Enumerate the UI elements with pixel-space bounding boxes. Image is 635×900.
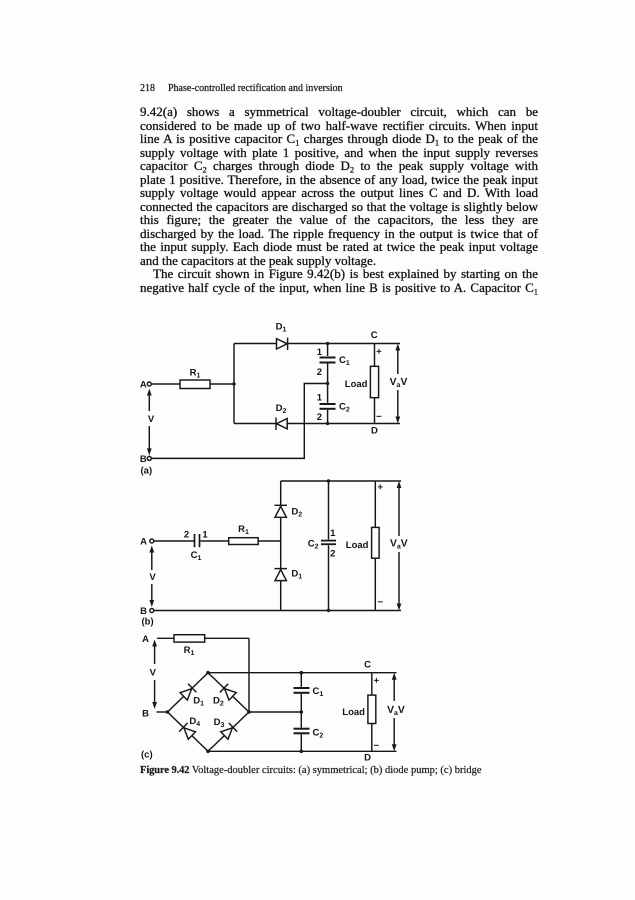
- svg-text:B: B: [140, 606, 147, 617]
- svg-text:C1: C1: [313, 686, 324, 698]
- svg-text:−: −: [378, 597, 384, 608]
- svg-text:2: 2: [184, 530, 189, 541]
- svg-text:(a): (a): [141, 466, 153, 477]
- svg-text:Load: Load: [345, 379, 368, 390]
- svg-text:C1: C1: [339, 355, 350, 367]
- svg-text:2: 2: [330, 549, 335, 560]
- svg-text:D4: D4: [189, 716, 200, 728]
- svg-text:(c): (c): [141, 750, 153, 761]
- svg-text:VaV: VaV: [390, 538, 408, 550]
- svg-text:B: B: [142, 708, 149, 719]
- svg-text:+: +: [378, 482, 384, 493]
- svg-text:D2: D2: [213, 695, 224, 707]
- svg-text:D3: D3: [214, 717, 225, 729]
- svg-text:A: A: [140, 537, 147, 548]
- svg-text:V: V: [149, 572, 156, 583]
- svg-text:D: D: [371, 426, 378, 437]
- svg-text:C1: C1: [191, 550, 202, 562]
- svg-text:D1: D1: [193, 695, 204, 707]
- svg-text:1: 1: [317, 393, 323, 404]
- svg-text:+: +: [374, 675, 380, 686]
- svg-text:1: 1: [330, 528, 336, 539]
- svg-text:+: +: [376, 346, 382, 357]
- svg-text:D: D: [364, 752, 371, 763]
- svg-text:VaV: VaV: [387, 705, 405, 717]
- svg-text:C2: C2: [308, 539, 319, 551]
- svg-text:−: −: [376, 411, 382, 422]
- svg-text:C: C: [364, 659, 371, 670]
- svg-text:D1: D1: [291, 569, 302, 581]
- svg-text:V: V: [148, 414, 155, 425]
- svg-text:D2: D2: [291, 506, 302, 518]
- svg-text:−: −: [374, 740, 380, 751]
- svg-text:C2: C2: [313, 728, 324, 740]
- svg-text:2: 2: [317, 412, 322, 423]
- svg-text:C: C: [371, 330, 378, 341]
- svg-text:VaV: VaV: [390, 377, 408, 389]
- svg-text:D2: D2: [276, 403, 287, 415]
- svg-text:D1: D1: [276, 322, 287, 334]
- svg-text:A: A: [140, 380, 147, 391]
- svg-text:B: B: [140, 454, 147, 465]
- svg-text:R1: R1: [238, 524, 249, 536]
- svg-text:Load: Load: [346, 540, 369, 551]
- svg-text:1: 1: [317, 347, 323, 358]
- svg-text:A: A: [142, 634, 149, 645]
- svg-text:1: 1: [202, 530, 208, 541]
- svg-text:Load: Load: [342, 707, 365, 718]
- svg-text:V: V: [150, 668, 157, 679]
- svg-text:C2: C2: [339, 401, 350, 413]
- svg-text:2: 2: [317, 367, 322, 378]
- svg-text:(b): (b): [142, 617, 154, 628]
- svg-text:R1: R1: [184, 645, 195, 657]
- svg-text:R1: R1: [190, 368, 201, 380]
